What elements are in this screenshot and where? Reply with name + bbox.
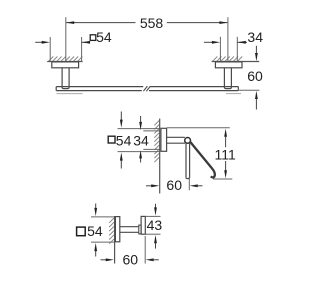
right post <box>224 68 231 89</box>
svg-text:54: 54 <box>116 133 132 149</box>
towel bar <box>56 87 238 91</box>
bar shadow lines <box>57 93 83 95</box>
holder arm <box>167 137 185 143</box>
dimension square-54 (bottom) <box>91 217 114 242</box>
left post <box>62 68 69 89</box>
wall hatching middle <box>154 121 159 163</box>
wall plate middle <box>161 128 167 151</box>
hook collar <box>139 225 141 234</box>
svg-text:34: 34 <box>247 29 263 45</box>
svg-text:43: 43 <box>147 217 163 233</box>
wall line middle (extends down as ext line for 60) <box>159 119 161 194</box>
dimension 60 (middle) <box>146 185 154 187</box>
dimension 34 (middle) <box>143 131 159 150</box>
dimension 558 <box>66 17 228 61</box>
dimension 34 (top) <box>204 37 247 62</box>
wall line right (extends right as extension line for 60) <box>212 61 260 63</box>
svg-text:54: 54 <box>96 29 112 45</box>
hook stem <box>120 227 139 233</box>
pivot circle <box>185 138 191 144</box>
svg-text:60: 60 <box>123 252 139 268</box>
hook head <box>141 216 145 234</box>
dimension 60 (bottom) <box>101 259 108 261</box>
dimension square-54 (middle) <box>118 129 160 152</box>
holder flap <box>190 142 215 178</box>
wall hatching left <box>49 57 83 62</box>
dimension 60 (top) <box>239 89 260 91</box>
svg-text:34: 34 <box>133 133 149 149</box>
dimension 43 <box>146 216 161 234</box>
svg-text:60: 60 <box>166 177 182 193</box>
wall hatching right <box>213 57 243 62</box>
wall line bottom (extends down as ext line for 60) <box>114 216 116 264</box>
svg-text:111: 111 <box>215 147 236 163</box>
dimension square-54 (top) <box>35 37 89 61</box>
bar break mark <box>143 86 150 91</box>
left wall plate <box>52 62 79 68</box>
wall line left <box>47 61 82 63</box>
svg-text:54: 54 <box>87 223 103 239</box>
right wall plate <box>215 62 242 68</box>
svg-text:60: 60 <box>247 68 263 84</box>
wall plate bottom <box>115 217 119 242</box>
wall hatching bottom <box>109 218 114 244</box>
svg-text:558: 558 <box>140 15 164 31</box>
roll holder bar <box>186 143 190 178</box>
dimension 111 <box>167 128 233 179</box>
